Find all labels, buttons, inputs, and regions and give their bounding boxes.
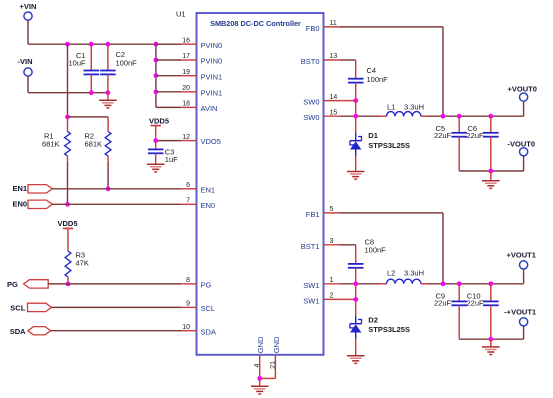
pin 2 SW1 (right) xyxy=(303,293,340,306)
wire pin20 xyxy=(156,91,181,93)
svg-text:2: 2 xyxy=(330,293,334,300)
svg-text:100nF: 100nF xyxy=(365,246,387,255)
capacitor C8 xyxy=(348,237,386,283)
wire FB1 net xyxy=(340,213,443,284)
capacitor C5 xyxy=(434,116,467,171)
wire EN1 xyxy=(52,188,181,190)
wire C2 gnd stub xyxy=(107,93,109,101)
pin 18 AVIN (left) xyxy=(181,101,217,113)
svg-text:SDA: SDA xyxy=(201,327,216,336)
junction VDD5/C3 xyxy=(153,138,158,143)
pin 17 PVIN0 (left) xyxy=(181,53,222,65)
junction gnd rail C10 xyxy=(488,337,493,342)
junction C6 top xyxy=(488,114,493,119)
pin 15 SW0 (right) xyxy=(303,109,340,122)
terminal +VOUT0 xyxy=(508,84,537,101)
svg-text:VDO5: VDO5 xyxy=(201,137,221,146)
port SDA xyxy=(10,327,51,336)
pin 13 BST0 (right) xyxy=(301,53,340,66)
port PG xyxy=(7,280,48,289)
wire pin14 horizontal xyxy=(340,100,356,102)
svg-text:10: 10 xyxy=(182,324,190,331)
wire -VIN down xyxy=(27,76,29,93)
resistor R1 xyxy=(42,117,70,156)
junction FB1/SW1 xyxy=(441,281,446,286)
svg-text:BST0: BST0 xyxy=(301,57,320,66)
junction +VIN/C2 xyxy=(106,42,111,47)
svg-text:681K: 681K xyxy=(42,140,60,149)
svg-text:GND: GND xyxy=(272,336,281,353)
pin 6 EN1 (left) xyxy=(181,182,215,194)
ground (D1) xyxy=(347,172,365,180)
ground (input) xyxy=(99,100,117,108)
port EN0 xyxy=(13,200,53,209)
pin 1 SW1 (right) xyxy=(303,277,340,290)
junction +VIN/C1 xyxy=(89,42,94,47)
svg-text:+VIN: +VIN xyxy=(20,2,37,11)
junction SW0/D1 xyxy=(353,114,358,119)
capacitor C2 xyxy=(100,44,137,92)
svg-text:21: 21 xyxy=(270,361,277,369)
svg-text:6: 6 xyxy=(186,182,190,189)
svg-text:FB0: FB0 xyxy=(306,24,320,33)
wire FB0 net xyxy=(340,27,443,116)
junction R2/EN1 xyxy=(106,186,111,191)
svg-text:19: 19 xyxy=(182,69,190,76)
U1 reference designator xyxy=(176,10,186,19)
svg-text:-VIN: -VIN xyxy=(18,57,33,66)
svg-text:SDA: SDA xyxy=(10,327,26,336)
svg-text:20: 20 xyxy=(182,85,190,92)
junction FB0/SW0 xyxy=(441,114,446,119)
junction GND pins xyxy=(257,376,262,381)
svg-text:100nF: 100nF xyxy=(367,75,389,84)
wire gnd stub xyxy=(259,378,261,386)
pin 5 FB1 (right) xyxy=(306,206,340,219)
ground (chip GND) xyxy=(251,386,269,394)
junction C5 top xyxy=(457,114,462,119)
svg-text:-+VOUT1: -+VOUT1 xyxy=(504,308,536,317)
junction C9 top xyxy=(457,281,462,286)
svg-text:PVIN1: PVIN1 xyxy=(201,88,223,97)
wire -VOUT0 xyxy=(523,156,525,171)
wire SW1 output line xyxy=(340,283,524,285)
inductor L2 3.3uH xyxy=(379,268,429,283)
svg-text:17: 17 xyxy=(182,53,190,60)
junction PVIN1 pin19 xyxy=(154,73,159,78)
svg-text:PVIN0: PVIN0 xyxy=(201,57,223,66)
terminal -VOUT0 xyxy=(508,140,536,156)
pin 21 GND (bottom) xyxy=(270,336,281,378)
svg-text:PG: PG xyxy=(7,280,18,289)
svg-text:EN1: EN1 xyxy=(201,185,216,194)
junction +VIN/R1 xyxy=(65,42,70,47)
svg-text:1uF: 1uF xyxy=(165,155,178,164)
pin 10 SDA (left) xyxy=(181,324,216,336)
wire BST0 to C4 xyxy=(340,60,356,79)
svg-text:VDD5: VDD5 xyxy=(149,116,169,125)
terminal +VIN xyxy=(20,2,37,20)
svg-text:12: 12 xyxy=(182,134,190,141)
svg-text:VDD5: VDD5 xyxy=(58,219,78,228)
junction C10 top xyxy=(488,281,493,286)
svg-text:PVIN0: PVIN0 xyxy=(201,41,223,50)
wire -VOUT1 xyxy=(523,326,525,339)
op-amp U1 SMB208 DC-DC Controller body xyxy=(197,13,324,355)
ground (D2) xyxy=(347,356,365,364)
wire pin1 to pin2 xyxy=(355,284,357,300)
ground (output ch1) xyxy=(482,347,500,355)
junction C4/SW0 pin14 xyxy=(353,98,358,103)
wire SW0 output line xyxy=(340,115,524,117)
junction R1 top tee xyxy=(65,115,70,120)
svg-text:U1: U1 xyxy=(176,10,186,19)
svg-text:681K: 681K xyxy=(85,140,103,149)
ground (C3) xyxy=(147,164,165,172)
wire pin17 xyxy=(156,59,181,61)
wire -VIN horizontal xyxy=(28,92,108,94)
svg-text:FB1: FB1 xyxy=(306,210,320,219)
svg-text:3.3uH: 3.3uH xyxy=(404,268,424,277)
svg-text:4: 4 xyxy=(254,364,261,368)
svg-text:7: 7 xyxy=(186,198,190,205)
wire PVIN vertical bus xyxy=(155,44,157,107)
junction R1/EN0 xyxy=(65,202,70,207)
svg-text:SW0: SW0 xyxy=(303,98,319,107)
capacitor C6 xyxy=(467,116,499,171)
svg-text:15: 15 xyxy=(330,109,338,116)
svg-text:EN1: EN1 xyxy=(13,184,28,193)
wire R2 bottom to EN1 xyxy=(107,156,109,189)
svg-text:BST1: BST1 xyxy=(301,242,320,251)
pin 8 PG (left) xyxy=(181,277,212,289)
junction gnd rail C6 xyxy=(488,169,493,174)
port EN1 xyxy=(13,184,53,193)
svg-text:3.3uH: 3.3uH xyxy=(404,102,424,111)
pin 11 FB0 (right) xyxy=(306,20,340,33)
svg-text:L2: L2 xyxy=(387,268,395,277)
svg-text:D2: D2 xyxy=(368,315,378,324)
wire C6 gnd stub xyxy=(490,171,492,181)
svg-text:+VOUT0: +VOUT0 xyxy=(508,84,537,93)
capacitor C9 xyxy=(434,284,467,339)
terminal +VOUT1 xyxy=(507,251,536,269)
wire SCL xyxy=(52,306,182,308)
svg-text:+VOUT1: +VOUT1 xyxy=(507,251,536,260)
svg-text:14: 14 xyxy=(330,94,338,101)
pin 7 EN0 (left) xyxy=(181,198,215,210)
pin 20 PVIN1 (left) xyxy=(181,85,222,97)
resistor R2 xyxy=(85,132,112,157)
pin 16 PVIN0 (left) xyxy=(181,37,222,49)
wire BST1 to C8 xyxy=(340,245,356,264)
pin 3 BST1 (right) xyxy=(301,238,340,251)
svg-text:22uF: 22uF xyxy=(467,131,485,140)
svg-text:8: 8 xyxy=(186,277,190,284)
wire +VIN bus horizontal xyxy=(28,43,181,45)
svg-text:STPS3L25S: STPS3L25S xyxy=(368,141,410,150)
wire pin2 horizontal xyxy=(340,298,356,300)
svg-text:PG: PG xyxy=(201,281,212,290)
inductor L1 3.3uH xyxy=(379,102,429,116)
wire +VOUT1 xyxy=(523,269,525,284)
wire R3 bottom xyxy=(67,277,69,284)
svg-text:3: 3 xyxy=(330,238,334,245)
svg-text:SW0: SW0 xyxy=(303,113,319,122)
junction PVIN0 pin17 xyxy=(154,58,159,63)
wire EN0 xyxy=(52,203,181,205)
diode D1 STPS3L25S xyxy=(350,116,410,171)
junction PVIN1 pin20 xyxy=(154,89,159,94)
svg-text:EN0: EN0 xyxy=(201,201,216,210)
pin 14 SW0 (right) xyxy=(303,94,340,107)
resistor R3 xyxy=(65,251,89,278)
junction R3/PG xyxy=(66,282,71,287)
power VDD5 (R3) xyxy=(58,219,78,251)
junction C1 bottom xyxy=(89,90,94,95)
diode D2 STPS3L25S xyxy=(350,299,410,355)
capacitor C3 xyxy=(148,141,178,165)
pin 9 SCL (left) xyxy=(181,301,215,313)
wire VDO5 pin12 xyxy=(156,140,181,142)
terminal -VIN xyxy=(18,57,33,76)
svg-text:100nF: 100nF xyxy=(116,59,138,68)
wire R1 bottom to EN0 xyxy=(67,156,69,204)
junction C2 bottom/gnd xyxy=(106,90,111,95)
wire PG xyxy=(48,283,181,285)
power VDD5 (C3) xyxy=(149,116,169,140)
svg-text:22uF: 22uF xyxy=(434,131,452,140)
svg-text:11: 11 xyxy=(330,20,337,27)
svg-text:C2: C2 xyxy=(116,50,126,59)
svg-text:D1: D1 xyxy=(368,131,378,140)
svg-text:GND: GND xyxy=(256,336,265,353)
svg-text:EN0: EN0 xyxy=(13,200,28,209)
svg-text:PVIN1: PVIN1 xyxy=(201,72,223,81)
svg-text:SW1: SW1 xyxy=(303,296,319,305)
wire pin16 xyxy=(156,43,181,45)
pin 19 PVIN1 (left) xyxy=(181,69,222,81)
junction +VIN/PVIN bus xyxy=(154,42,159,47)
svg-text:1: 1 xyxy=(330,277,334,284)
svg-text:SCL: SCL xyxy=(201,304,216,313)
svg-text:L1: L1 xyxy=(387,102,395,111)
junction SW1 pin2 xyxy=(353,297,358,302)
junction SW1/C8/D2 xyxy=(353,281,358,286)
wire C10 gnd stub xyxy=(490,339,492,347)
svg-text:47K: 47K xyxy=(76,259,89,268)
svg-text:SCL: SCL xyxy=(10,304,25,313)
svg-text:AVIN: AVIN xyxy=(201,104,218,113)
capacitor C4 xyxy=(348,66,388,100)
wire +VOUT0 xyxy=(523,101,525,116)
wire R1 bus vertical xyxy=(67,44,69,117)
wire output gnd rail ch1 xyxy=(459,338,523,340)
capacitor C1 xyxy=(69,44,100,92)
terminal -VOUT1 xyxy=(504,308,536,326)
U1 title label xyxy=(210,19,301,28)
capacitor C10 xyxy=(467,284,499,339)
port SCL xyxy=(10,303,51,312)
svg-text:16: 16 xyxy=(182,37,190,44)
svg-text:SW1: SW1 xyxy=(303,281,319,290)
wire +VIN down xyxy=(27,20,29,44)
wire pin21 to pin4 gnd xyxy=(260,377,276,379)
ground (output ch0) xyxy=(482,181,500,189)
svg-text:STPS3L25S: STPS3L25S xyxy=(368,325,410,334)
svg-text:SMB208 DC-DC Controller: SMB208 DC-DC Controller xyxy=(210,19,301,28)
wire pin14 to pin15 xyxy=(355,101,357,117)
svg-text:5: 5 xyxy=(330,206,334,213)
wire pin18 AVIN xyxy=(156,106,181,108)
wire R1-R2 top link xyxy=(68,117,109,132)
svg-text:22uF: 22uF xyxy=(434,298,452,307)
svg-text:-VOUT0: -VOUT0 xyxy=(508,140,536,149)
wire pin19 xyxy=(156,75,181,77)
pin 12 VDO5 (left) xyxy=(181,134,221,146)
svg-text:22uF: 22uF xyxy=(467,298,485,307)
wire output gnd rail ch0 xyxy=(459,170,523,172)
svg-text:13: 13 xyxy=(330,53,338,60)
svg-text:10uF: 10uF xyxy=(69,59,87,68)
pin 4 GND (bottom) xyxy=(254,336,265,378)
svg-text:18: 18 xyxy=(182,101,190,108)
svg-text:9: 9 xyxy=(186,301,190,308)
wire SDA xyxy=(51,330,181,332)
